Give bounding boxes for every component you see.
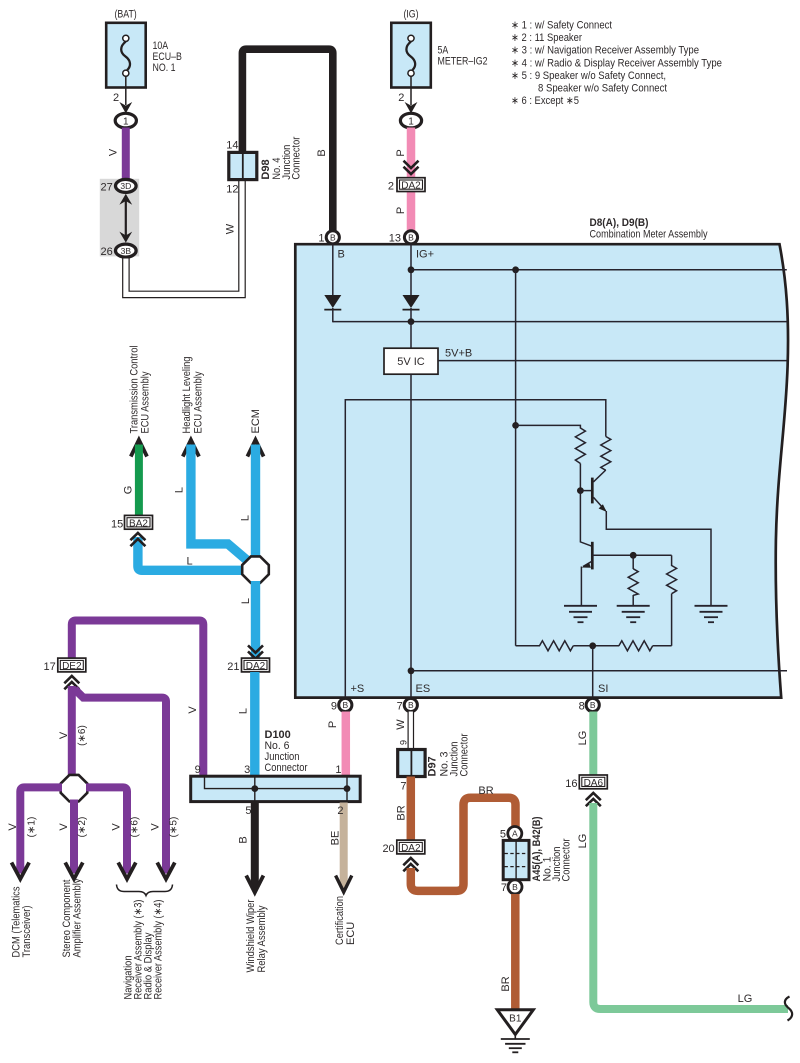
wire from fuse BAT pin 2 bbox=[113, 76, 126, 105]
wire V (violet) fuse to 3D bbox=[108, 128, 126, 181]
node dot IG+ branch bbox=[408, 266, 415, 273]
svg-text:9: 9 bbox=[399, 740, 409, 745]
wire V (violet) DE2 down to splice octagon bbox=[58, 686, 88, 776]
node dot diode junction bbox=[408, 318, 415, 325]
svg-text:V: V bbox=[108, 148, 120, 156]
node 1 circle (BAT side) bbox=[115, 113, 136, 128]
svg-text:V: V bbox=[58, 823, 70, 831]
svg-text:Relay Assembly: Relay Assembly bbox=[256, 905, 268, 972]
svg-text:(∗1): (∗1) bbox=[26, 817, 37, 838]
terminal arrow into node 1 (BAT side) bbox=[119, 102, 132, 113]
svg-text:W: W bbox=[395, 719, 407, 730]
svg-text:(∗5): (∗5) bbox=[169, 817, 180, 838]
svg-text:B: B bbox=[342, 700, 348, 710]
svg-text:Transceiver): Transceiver) bbox=[21, 906, 33, 958]
svg-text:DA2: DA2 bbox=[246, 661, 266, 672]
wire W (white) 3B to D98 pin 12 bbox=[126, 179, 242, 294]
wire to resistor R1 bbox=[516, 425, 581, 428]
svg-text:SI: SI bbox=[598, 683, 608, 695]
bottom bus to right edge bbox=[411, 670, 787, 672]
junction connector D97 No.3 bbox=[398, 733, 471, 792]
svg-text:ECU: ECU bbox=[345, 922, 357, 945]
svg-text:V: V bbox=[7, 823, 19, 831]
wire L (blue) DA2 21 down to D100 pin 3 bbox=[238, 672, 255, 777]
connector 2 DA2 (IG side) bbox=[388, 178, 425, 193]
svg-text:9: 9 bbox=[331, 700, 337, 712]
resistor R1 bbox=[575, 428, 585, 464]
svg-text:Headlight Leveling: Headlight Leveling bbox=[181, 357, 193, 434]
label Certification ECU bbox=[334, 896, 357, 945]
meter pin 8 circle bbox=[579, 698, 600, 712]
ground G3 bbox=[695, 606, 728, 622]
svg-text:5: 5 bbox=[500, 829, 506, 841]
svg-text:16: 16 bbox=[565, 778, 577, 790]
svg-text:BA2: BA2 bbox=[129, 518, 148, 529]
svg-text:Connector: Connector bbox=[265, 762, 308, 774]
chevron into DA2 20 bbox=[403, 858, 418, 871]
svg-text:3D: 3D bbox=[120, 181, 131, 191]
wire V branch *2 from octagon bbox=[58, 800, 88, 872]
ground G2 bbox=[617, 606, 650, 622]
svg-text:2: 2 bbox=[388, 180, 394, 192]
connector block 3D/3B gray box bbox=[100, 179, 139, 257]
wire IG+ branch to right edge bbox=[411, 269, 787, 271]
arrow to Navigation Receiver bbox=[118, 863, 136, 880]
splice octagon (L wires) bbox=[242, 556, 269, 583]
wire BR (brown) D97 to DA2 20 bbox=[396, 777, 411, 844]
arrow to Transmission Control ECU bbox=[131, 440, 147, 457]
junction connector A45(A) B42(B) bbox=[500, 816, 573, 894]
svg-text:L: L bbox=[240, 515, 252, 521]
wire L (blue) headlight branch bbox=[174, 445, 248, 561]
node 3B bbox=[101, 244, 137, 258]
wire B (black) D100 pin 5 to wiper relay bbox=[238, 803, 255, 889]
wire V branch *6 from octagon bbox=[86, 787, 141, 871]
svg-text:ECU Assembly: ECU Assembly bbox=[140, 371, 152, 433]
svg-text:8 Speaker w/o Safety Connect: 8 Speaker w/o Safety Connect bbox=[538, 83, 667, 95]
svg-text:+S: +S bbox=[351, 683, 365, 695]
label DCM (Telematics Transceiver) bbox=[10, 886, 33, 957]
svg-text:A: A bbox=[512, 829, 518, 839]
transistor Q1 bbox=[592, 470, 606, 512]
splice octagon (V wires) bbox=[61, 775, 88, 802]
svg-text:BR: BR bbox=[396, 805, 408, 820]
svg-text:(∗6): (∗6) bbox=[77, 725, 88, 746]
wire IG+ down to 5V IC bbox=[410, 322, 412, 349]
arrow to Stereo Amplifier bbox=[65, 863, 83, 880]
svg-text:DA2: DA2 bbox=[401, 843, 421, 854]
svg-text:LG: LG bbox=[577, 731, 589, 746]
label +S bbox=[351, 683, 365, 695]
svg-text:B: B bbox=[590, 700, 596, 710]
arrow to DCM bbox=[12, 863, 30, 880]
meter pin 7 circle bbox=[397, 698, 418, 712]
svg-text:2: 2 bbox=[337, 805, 343, 817]
label Navigation / Radio Display Receiver bbox=[123, 900, 165, 1000]
svg-text:ECM: ECM bbox=[250, 409, 262, 433]
svg-text:L: L bbox=[174, 487, 186, 493]
label Stereo Component Amplifier Assembly bbox=[61, 878, 84, 957]
terminal arrow into node 1 (IG side) bbox=[405, 102, 418, 113]
svg-text:7: 7 bbox=[501, 882, 507, 894]
svg-text:METER–IG2: METER–IG2 bbox=[438, 56, 488, 68]
arrow to ECM bbox=[247, 440, 263, 457]
bottom divider chain wire bbox=[516, 645, 540, 647]
open arrow to Certification ECU bbox=[336, 876, 352, 893]
svg-text:17: 17 bbox=[44, 661, 56, 673]
svg-text:26: 26 bbox=[101, 246, 113, 258]
connector 17 DE2 bbox=[44, 658, 86, 673]
svg-text:L: L bbox=[238, 708, 250, 714]
svg-text:7: 7 bbox=[400, 781, 406, 793]
fuse 10A ECU-B NO.1 (BAT) bbox=[106, 9, 182, 88]
svg-text:DE2: DE2 bbox=[62, 661, 82, 672]
svg-text:3: 3 bbox=[244, 764, 250, 776]
combination meter assembly box D8(A) D9(B) bbox=[295, 217, 788, 698]
svg-text:B: B bbox=[330, 233, 336, 243]
svg-text:B: B bbox=[408, 233, 414, 243]
resistor R3 bbox=[628, 555, 638, 606]
svg-text:(∗6): (∗6) bbox=[130, 817, 141, 838]
label Headlight Leveling ECU Assembly bbox=[181, 357, 204, 434]
svg-text:DA2: DA2 bbox=[401, 181, 421, 192]
vertical rail x=515 bbox=[515, 270, 517, 646]
svg-text:5: 5 bbox=[245, 805, 251, 817]
svg-text:1: 1 bbox=[335, 764, 341, 776]
arrow pair between 3D and 3B bbox=[119, 194, 132, 243]
wire Q2 base to resistors bbox=[592, 554, 671, 556]
node dot SI tap bbox=[589, 642, 596, 649]
arrow to Windshield Wiper Relay bbox=[246, 876, 263, 893]
label Transmission Control ECU Assembly bbox=[128, 346, 151, 434]
svg-text:∗ 4 : w/ Radio & Display Recei: ∗ 4 : w/ Radio & Display Receiver Assemb… bbox=[511, 57, 722, 69]
svg-text:Transmission Control: Transmission Control bbox=[128, 346, 140, 434]
svg-text:15: 15 bbox=[111, 518, 123, 530]
label ECM bbox=[250, 409, 262, 433]
svg-text:LG: LG bbox=[738, 993, 753, 1005]
wire V (violet) DE2 up over to D100 pin 9 bbox=[72, 621, 204, 778]
wire R6 to R4 leg bbox=[653, 645, 672, 647]
resistor R4 bbox=[667, 555, 677, 646]
label ES bbox=[416, 683, 431, 695]
meter pin 13 circle bbox=[389, 231, 418, 245]
label B at pin 1 inside meter bbox=[338, 249, 345, 261]
arrow to Radio Display Receiver bbox=[157, 863, 175, 880]
wire BR (brown) A45 pin 7 to ground B1 bbox=[500, 894, 515, 1010]
svg-text:Amplifier Assembly: Amplifier Assembly bbox=[72, 878, 84, 957]
junction connector D100 No.6 bbox=[191, 729, 361, 802]
svg-text:B: B bbox=[316, 149, 328, 156]
resistor R6 bbox=[619, 641, 653, 651]
5V IC block bbox=[384, 348, 438, 374]
svg-text:P: P bbox=[327, 721, 339, 728]
svg-text:B: B bbox=[408, 700, 414, 710]
svg-text:1: 1 bbox=[408, 116, 414, 127]
diode D2 bbox=[403, 295, 420, 322]
connector 15 BA2 bbox=[111, 515, 152, 530]
svg-text:5V+B: 5V+B bbox=[445, 347, 472, 359]
connector 21 DA2 bbox=[227, 658, 269, 673]
wire ES vertical below 5V IC bbox=[410, 374, 412, 697]
svg-text:BR: BR bbox=[500, 976, 512, 991]
chevron into DA2 (IG side) bbox=[404, 161, 419, 174]
svg-text:2: 2 bbox=[113, 92, 119, 104]
svg-text:V: V bbox=[110, 823, 122, 831]
wire LG (light green) meter SI to DA6 bbox=[577, 712, 593, 778]
svg-text:Connector: Connector bbox=[459, 733, 471, 776]
node 3D bbox=[101, 179, 137, 193]
fuse 5A METER-IG2 (IG) bbox=[391, 9, 487, 88]
wire L (blue) octagon down to DA2 21 bbox=[240, 581, 256, 660]
svg-text:Receiver Assembly (∗4): Receiver Assembly (∗4) bbox=[153, 900, 165, 1000]
svg-text:(IG): (IG) bbox=[403, 9, 418, 21]
wire Q1 emitter to ground G3 bbox=[606, 511, 711, 606]
svg-text:BE: BE bbox=[330, 831, 342, 846]
ground G1 bbox=[564, 606, 597, 622]
wire L (blue) ECM vertical bbox=[240, 445, 256, 559]
label 5V+B bbox=[445, 347, 472, 359]
svg-text:1: 1 bbox=[123, 116, 129, 127]
wire Q2 emitter to ground G1 bbox=[580, 567, 582, 607]
wire V branch *1 from octagon bbox=[7, 787, 62, 871]
svg-text:Connector: Connector bbox=[290, 136, 302, 179]
chevron into DA2 21 bbox=[248, 645, 263, 658]
wire +S vertical and top run bbox=[345, 400, 606, 697]
svg-text:12: 12 bbox=[226, 183, 238, 195]
wire G (green) BA2 to Transmission arrow bbox=[123, 445, 139, 517]
node 1 circle (IG side) bbox=[400, 113, 421, 128]
resistor R2 bbox=[601, 437, 611, 471]
svg-text:∗ 1 : w/ Safety Connect: ∗ 1 : w/ Safety Connect bbox=[511, 20, 612, 32]
svg-text:∗ 5 : 9 Speaker w/o Safety Con: ∗ 5 : 9 Speaker w/o Safety Connect, bbox=[511, 70, 666, 82]
wire LG (light green) DA6 down and right to edge bbox=[577, 803, 788, 1009]
label IG+ at pin 13 inside meter bbox=[416, 249, 434, 261]
svg-text:B: B bbox=[338, 249, 345, 261]
svg-text:8: 8 bbox=[579, 700, 585, 712]
svg-text:V: V bbox=[187, 706, 199, 714]
svg-text:∗ 6 : Except ∗5: ∗ 6 : Except ∗5 bbox=[511, 95, 579, 107]
svg-text:NO. 1: NO. 1 bbox=[153, 62, 176, 74]
svg-text:W: W bbox=[225, 223, 237, 234]
svg-text:ECU Assembly: ECU Assembly bbox=[192, 371, 204, 433]
ground B1 bbox=[497, 1010, 533, 1053]
meter pin 1 circle bbox=[318, 231, 339, 245]
wire B inside meter (pin1 to diode) bbox=[332, 244, 334, 296]
junction connector D98 bbox=[226, 136, 302, 195]
wire IG+ inside meter bbox=[410, 244, 412, 296]
svg-text:3B: 3B bbox=[121, 246, 132, 256]
svg-text:27: 27 bbox=[101, 181, 113, 193]
svg-text:V: V bbox=[149, 823, 161, 831]
svg-text:(BAT): (BAT) bbox=[114, 9, 136, 21]
svg-text:BR: BR bbox=[478, 785, 493, 797]
svg-text:L: L bbox=[240, 598, 252, 604]
wire W (white) meter ES to D97 pin 9 bbox=[395, 712, 411, 751]
label SI bbox=[598, 683, 608, 695]
svg-text:Connector: Connector bbox=[561, 838, 573, 881]
svg-text:1: 1 bbox=[318, 233, 324, 245]
svg-text:13: 13 bbox=[389, 233, 401, 245]
meter pin 9 circle bbox=[331, 698, 352, 712]
wire base to Q1 bbox=[580, 490, 591, 492]
wire 5V+B to right edge bbox=[438, 360, 787, 362]
svg-text:IG+: IG+ bbox=[416, 249, 434, 261]
svg-text:ES: ES bbox=[416, 683, 431, 695]
svg-text:∗ 3 : w/ Navigation Receiver A: ∗ 3 : w/ Navigation Receiver Assembly Ty… bbox=[511, 45, 699, 57]
svg-text:∗ 2 : 11 Speaker: ∗ 2 : 11 Speaker bbox=[511, 32, 582, 44]
chevron into DE2 bbox=[64, 676, 79, 689]
wire BR (brown) DA2 20 to A45 pin 5 bbox=[411, 785, 516, 891]
chevron into DA6 bbox=[586, 793, 601, 806]
svg-text:D97: D97 bbox=[427, 756, 439, 776]
wire P (pink) fuse IG to meter pin 13 bbox=[395, 128, 411, 234]
svg-text:21: 21 bbox=[227, 661, 239, 673]
svg-text:B: B bbox=[512, 882, 518, 892]
wire P (pink) meter +S to D100 pin 1 bbox=[327, 712, 346, 778]
svg-text:V: V bbox=[58, 731, 70, 739]
svg-text:2: 2 bbox=[398, 92, 404, 104]
svg-text:LG: LG bbox=[577, 834, 589, 849]
svg-text:L: L bbox=[186, 556, 192, 568]
label Windshield Wiper Relay Assembly bbox=[245, 899, 268, 972]
arrow to Headlight Leveling ECU bbox=[183, 440, 199, 457]
node dot ES bottom bbox=[408, 667, 415, 674]
svg-text:G: G bbox=[123, 486, 135, 495]
svg-text:7: 7 bbox=[397, 700, 403, 712]
node dot R1 branch bbox=[512, 422, 519, 429]
legend note block bbox=[511, 20, 722, 108]
transistor Q2 bbox=[582, 542, 593, 570]
wire SI vertical bbox=[592, 646, 594, 697]
resistor R5 bbox=[540, 641, 574, 651]
node dot at x515 on IG+ branch bbox=[512, 266, 519, 273]
svg-text:DA6: DA6 bbox=[584, 778, 604, 789]
svg-text:B1: B1 bbox=[509, 1013, 522, 1024]
svg-text:20: 20 bbox=[382, 843, 394, 855]
node dot R3 top bbox=[630, 552, 637, 559]
wire from fuse IG pin 2 bbox=[398, 76, 411, 105]
chevron into BA2 bbox=[130, 533, 145, 546]
continuation squiggle on LG wire bbox=[785, 997, 792, 1021]
svg-text:Combination Meter Assembly: Combination Meter Assembly bbox=[590, 229, 708, 241]
brace under *3/*4 arrows bbox=[117, 885, 173, 896]
svg-text:P: P bbox=[395, 207, 407, 214]
svg-text:9: 9 bbox=[195, 764, 201, 776]
connector 16 DA6 bbox=[565, 775, 607, 790]
wire from D1 to bus bbox=[333, 321, 787, 323]
connector 20 DA2 bbox=[382, 840, 424, 855]
wire Q1 base rail down to Q2 collector bbox=[580, 491, 591, 547]
svg-text:P: P bbox=[395, 149, 407, 156]
svg-text:B: B bbox=[238, 836, 250, 843]
wire V (violet) branch *5 diagonal off DE2 feed bbox=[75, 689, 180, 871]
svg-text:D8(A), D9(B): D8(A), D9(B) bbox=[590, 217, 649, 229]
node dot Q1 base bbox=[577, 487, 584, 494]
wire L (blue) octagon to BA2 chevron bbox=[138, 537, 244, 570]
svg-text:14: 14 bbox=[226, 140, 238, 152]
wire B (black) D98 pin 14 to meter pin 1 bbox=[242, 49, 332, 231]
diode D1 bbox=[324, 295, 341, 322]
wire R1 to Q1 base node bbox=[579, 464, 581, 491]
wire R5 to dot bbox=[573, 645, 619, 647]
svg-text:(∗2): (∗2) bbox=[77, 817, 88, 838]
pin numbers 5 and 2 of D100 bbox=[245, 805, 343, 817]
wire BE (beige) D100 pin 2 to certification ECU bbox=[330, 803, 344, 889]
svg-text:5V IC: 5V IC bbox=[397, 356, 425, 368]
